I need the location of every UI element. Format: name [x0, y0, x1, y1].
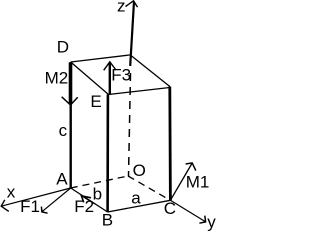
top face edge E-rightTop — [109, 88, 170, 95]
svg-text:F1: F1 — [20, 197, 40, 216]
bottom edge B-C — [108, 200, 171, 212]
force F2 arrow — [81, 196, 95, 204]
y axis arrowhead — [199, 216, 205, 224]
svg-text:z: z — [117, 0, 126, 16]
z axis — [130, 2, 134, 67]
svg-text:F3: F3 — [111, 66, 131, 85]
svg-text:a: a — [131, 189, 141, 208]
F2 arrowhead — [81, 196, 91, 203]
M2 arrowhead chevron — [62, 97, 78, 105]
top face edge backTop-D — [71, 55, 131, 62]
bottom edge A-B — [71, 188, 108, 212]
svg-text:O: O — [133, 161, 146, 180]
svg-text:c: c — [59, 121, 68, 140]
F3 arrowhead — [104, 62, 116, 71]
moment M2 arrow stem — [69, 63, 73, 105]
svg-text:E: E — [90, 92, 101, 111]
F1 arrowhead — [41, 207, 47, 214]
edge E-B — [106, 95, 109, 213]
svg-text:b: b — [93, 185, 102, 204]
svg-text:x: x — [7, 183, 16, 202]
edge D-A — [69, 62, 71, 188]
x axis arrowhead — [1, 200, 9, 212]
y axis — [170, 200, 205, 222]
svg-text:M1: M1 — [186, 173, 210, 192]
top face edge D-E — [71, 62, 109, 95]
z axis arrowhead — [126, 1, 138, 7]
hidden edge A-O dashed — [71, 176, 128, 188]
edge rightTop-C — [168, 87, 171, 201]
M1 arrowhead — [186, 163, 196, 171]
svg-text:F2: F2 — [74, 197, 94, 216]
svg-text:M2: M2 — [45, 69, 69, 88]
x axis — [1, 188, 71, 206]
force F3 arrow — [109, 63, 111, 95]
force F1 arrow — [42, 188, 71, 212]
svg-text:D: D — [57, 38, 69, 57]
svg-text:B: B — [102, 211, 113, 230]
svg-text:C: C — [164, 199, 176, 218]
moment M1 arrow — [170, 163, 192, 200]
svg-text:y: y — [207, 212, 216, 231]
hidden edge O-C dashed — [128, 176, 170, 200]
top face edge backTop-rightTop — [130, 55, 170, 87]
svg-text:A: A — [56, 169, 68, 188]
hidden edge O-backTop dashed — [129, 73, 131, 176]
